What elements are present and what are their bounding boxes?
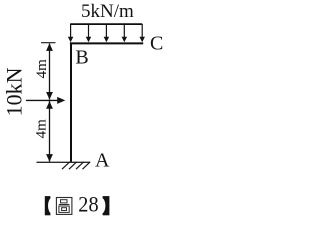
ground hatch 1: [62, 162, 70, 169]
load arrow 5: [139, 24, 145, 42]
dimension line upper segment: [46, 43, 53, 99]
dimension line lower segment: [46, 101, 53, 162]
svg-text:28: 28: [78, 192, 98, 217]
caption left bracket: [45, 196, 55, 215]
fixed support ground line at A: [37, 161, 91, 163]
svg-text:4m: 4m: [33, 119, 49, 139]
caption right bracket: [98, 196, 109, 215]
svg-text:A: A: [95, 150, 110, 172]
ground hatch 2: [69, 162, 77, 169]
load arrow 2: [86, 24, 92, 42]
svg-text:4m: 4m: [34, 59, 50, 79]
distributed load top line: [70, 23, 142, 25]
ground hatch 4: [83, 162, 91, 169]
load arrow 1: [68, 24, 74, 42]
svg-text:B: B: [75, 47, 88, 69]
svg-text:C: C: [150, 33, 163, 55]
load arrow 3: [104, 24, 110, 42]
beam BC: [70, 42, 143, 44]
ground hatch 3: [76, 162, 84, 169]
svg-text:5kN/m: 5kN/m: [81, 1, 134, 22]
svg-text:10kN: 10kN: [2, 67, 27, 116]
dimension top tick: [41, 42, 56, 44]
caption glyph 圖: [56, 198, 72, 215]
10kN force arrow: [26, 97, 65, 104]
load arrow 4: [122, 24, 128, 42]
column AB: [70, 42, 72, 161]
